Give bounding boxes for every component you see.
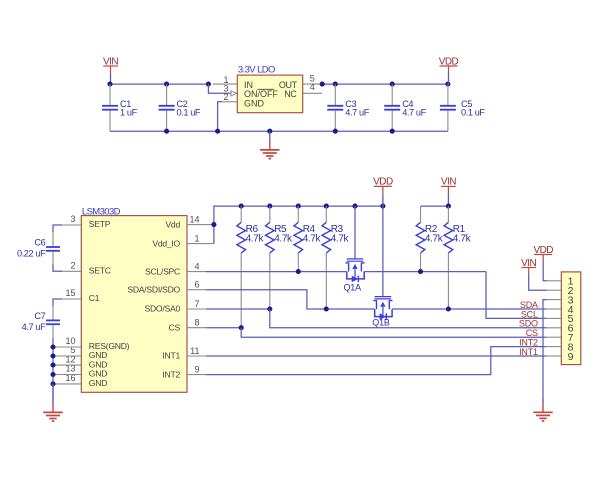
svg-text:4.7 uF: 4.7 uF — [345, 107, 369, 117]
pin 9 stub connector — [546, 355, 561, 357]
node R4 bottom junction — [296, 269, 301, 274]
node R6 top junction — [239, 204, 244, 209]
pin name RES(GND) — [89, 341, 130, 351]
svg-text:8: 8 — [194, 318, 199, 328]
transistor Q1B (level shifter) — [372, 297, 392, 328]
svg-text:4.7k: 4.7k — [453, 234, 472, 245]
node Q1A gate junction — [352, 204, 357, 209]
power flag VIN (bottom section) — [441, 177, 456, 207]
svg-text:4.7k: 4.7k — [246, 234, 265, 245]
wire SCL 3.3V side — [206, 271, 347, 273]
pin number 7 — [194, 299, 199, 309]
pin 7 stub SDO/SA0 — [187, 308, 206, 310]
node R3 bottom junction — [324, 306, 329, 311]
wire LDO ON/OFF tie to IN — [208, 84, 230, 93]
node LDO GND junction — [215, 129, 220, 134]
node R5 top junction — [267, 204, 272, 209]
svg-text:4.7k: 4.7k — [274, 234, 293, 245]
ic U1 LSM303D box — [81, 216, 187, 393]
node ground junction — [267, 129, 272, 134]
node R1 bottom junction — [446, 306, 451, 311]
node LDO IN junction — [206, 82, 211, 87]
resistor R4 4.7k — [294, 206, 322, 272]
pin number 2 connector — [568, 285, 574, 297]
pin name SCL/SPC — [145, 266, 180, 276]
label 3.3V LDO — [238, 65, 275, 76]
svg-text:1 uF: 1 uF — [120, 107, 138, 117]
wire C6 to SETC — [53, 264, 62, 271]
pin 8 stub CS — [187, 327, 206, 329]
wire CS from chip — [206, 327, 241, 329]
pin name CS — [169, 322, 181, 332]
pin number 13 — [65, 364, 75, 374]
svg-text:11: 11 — [190, 346, 199, 356]
ground symbol (top section) — [260, 131, 279, 158]
node C4 bottom junction — [390, 129, 395, 134]
svg-text:4.7k: 4.7k — [331, 234, 350, 245]
pin 5 stub connector — [546, 317, 561, 319]
svg-text:C6: C6 — [34, 237, 45, 247]
power flag VDD (bottom section) — [373, 177, 393, 207]
svg-text:SETC: SETC — [89, 266, 111, 276]
capacitor C7 4.7 uF — [22, 306, 60, 338]
svg-text:GND: GND — [244, 99, 265, 109]
svg-text:1: 1 — [194, 234, 199, 244]
pin 14 stub Vdd — [187, 224, 214, 226]
pin number 7 connector — [568, 332, 574, 344]
svg-text:Q1B: Q1B — [372, 318, 390, 328]
svg-text:Vdd: Vdd — [165, 219, 180, 229]
pin 2 stub LDO GND — [222, 101, 237, 103]
node GND pin 12 junction — [50, 363, 55, 368]
net label SDO — [519, 319, 538, 329]
pin number 8 connector — [568, 341, 574, 353]
svg-text:INT2: INT2 — [162, 369, 180, 379]
svg-text:INT1: INT1 — [162, 351, 180, 361]
svg-text:0.22 uF: 0.22 uF — [17, 249, 46, 259]
pin number 6 connector — [568, 323, 574, 335]
pin name GND — [244, 99, 265, 109]
svg-text:C7: C7 — [34, 311, 45, 321]
svg-text:9: 9 — [194, 365, 199, 375]
resistor R3 4.7k — [322, 206, 350, 309]
resistor R6 4.7k — [237, 206, 265, 328]
svg-text:SDO/SA0: SDO/SA0 — [144, 304, 180, 314]
svg-text:4.7k: 4.7k — [303, 234, 322, 245]
wire VDD output rail — [322, 83, 448, 85]
svg-text:15: 15 — [65, 288, 75, 298]
pin 4 stub SCL/SPC — [187, 271, 206, 273]
svg-text:6: 6 — [194, 280, 199, 290]
pin number 3 (LDO ON/OFF) — [223, 83, 228, 93]
svg-text:4.7 uF: 4.7 uF — [22, 322, 46, 332]
pin name C1 — [89, 293, 100, 303]
pin number 1 connector — [568, 276, 574, 288]
pin name SDO/SA0 — [144, 304, 180, 314]
pin number 5 (LDO OUT) — [310, 73, 315, 83]
wire SETP to C6 — [53, 225, 62, 232]
wire Vdd/Vdd_IO to 3.3V bus — [214, 206, 383, 244]
pin number 1 — [194, 234, 199, 244]
wire VIN to pin 2 — [529, 275, 547, 290]
svg-text:SETP: SETP — [89, 219, 111, 229]
pin 6 stub SDA/SDI/SDO — [187, 289, 206, 291]
svg-text:2: 2 — [223, 92, 228, 102]
svg-text:4: 4 — [310, 82, 315, 92]
pin 1 stub connector — [546, 280, 561, 282]
pin 7 stub connector — [546, 336, 561, 338]
wire ground bus (left) — [52, 338, 54, 403]
net label SDA — [520, 300, 538, 310]
svg-text:4.7k: 4.7k — [425, 234, 444, 245]
node C4 top junction — [390, 82, 395, 87]
pin 3 stub connector — [546, 299, 561, 301]
node C2 bottom junction — [164, 129, 169, 134]
svg-text:0.1 uF: 0.1 uF — [461, 107, 485, 117]
svg-text:3: 3 — [70, 214, 75, 224]
pin 5 stub GND — [53, 355, 81, 357]
node R5 bottom junction — [267, 306, 272, 311]
pin 4 stub connector — [546, 308, 561, 310]
pin 13 stub GND — [53, 374, 81, 376]
pin number 3 — [70, 214, 75, 224]
pin name SETC — [89, 266, 111, 276]
pin name GND — [89, 350, 107, 360]
pin name Vdd — [165, 219, 180, 229]
wire CS to connector — [241, 328, 546, 338]
node GND pin 10 junction — [50, 344, 55, 349]
pin number 8 — [194, 318, 199, 328]
node C3 top junction — [333, 82, 338, 87]
regulator U2 3.3V LDO box — [237, 75, 302, 113]
pin name OUT — [279, 80, 298, 90]
power flag VIN (input rail, top left) — [103, 56, 118, 84]
pin number 2 (LDO GND) — [223, 92, 228, 102]
net label INT2 — [519, 338, 538, 348]
pin number 9 connector — [568, 351, 574, 363]
pin 11 stub INT1 — [187, 355, 206, 357]
pin number 10 — [65, 336, 75, 346]
pin number 15 — [65, 288, 75, 298]
net label INT1 — [519, 347, 538, 357]
connector J1 box — [561, 272, 581, 365]
resistor R5 4.7k — [266, 206, 294, 309]
svg-text:4: 4 — [194, 262, 199, 272]
svg-text:INT1: INT1 — [519, 347, 538, 357]
svg-text:CS: CS — [169, 322, 181, 332]
node GND pin 5 junction — [50, 353, 55, 358]
svg-text:SCL/SPC: SCL/SPC — [145, 266, 180, 276]
pin number 9 — [194, 365, 199, 375]
pin name ON/OFF with overbar — [244, 89, 278, 99]
pin number 12 — [65, 354, 75, 364]
pin name NC — [284, 89, 297, 99]
pin 2 stub SETC — [62, 270, 81, 272]
wire ground rail (top section) — [110, 130, 448, 132]
wire INT2 to connector — [206, 347, 547, 375]
capacitor C4 4.7 uF — [384, 84, 426, 131]
node VIN/C1 junction — [107, 82, 112, 87]
wire SDO to connector — [270, 309, 547, 328]
svg-text:SDA/SDI/SDO: SDA/SDI/SDO — [127, 284, 180, 294]
resistor R1 4.7k — [444, 206, 472, 309]
pin number 6 — [194, 280, 199, 290]
svg-text:NC: NC — [284, 89, 297, 99]
svg-text:9: 9 — [568, 351, 574, 363]
wire SCL to connector — [486, 272, 547, 319]
pin name IN — [244, 80, 253, 90]
wire VDD to pin 1 — [543, 262, 546, 281]
pin number 5 connector — [568, 313, 574, 325]
pin 10 stub GND — [53, 346, 81, 348]
pin name INT1 — [162, 351, 180, 361]
pin 3 stub SETP — [62, 224, 81, 226]
wire gate Q1A to VDD bus — [354, 206, 356, 259]
pin name SDA/SDI/SDO — [127, 284, 180, 294]
pin name Vdd_IO — [152, 238, 180, 248]
wire SDO from chip — [206, 308, 270, 310]
svg-text:GND: GND — [89, 378, 107, 388]
pin number 3 connector — [568, 294, 574, 306]
svg-text:Q1A: Q1A — [344, 282, 362, 292]
pin number 4 — [194, 262, 199, 272]
pin 5 stub LDO OUT — [303, 83, 323, 85]
node OUT junction — [320, 82, 325, 87]
svg-text:4.7 uF: 4.7 uF — [402, 107, 426, 117]
wire VIN rail — [110, 83, 208, 85]
power flag VDD (3.3V rail, top right) — [439, 56, 459, 84]
pin 2 stub connector — [546, 289, 561, 291]
power flag VDD (connector) — [533, 245, 553, 262]
pin number 2 — [70, 260, 75, 270]
wire VIN pullup bus — [421, 205, 449, 207]
pin 1 stub LDO IN — [213, 83, 238, 85]
pin name GND — [89, 369, 107, 379]
net label SCL — [521, 309, 538, 319]
pin 1 stub Vdd_IO — [187, 243, 214, 245]
pin 12 stub GND — [53, 364, 81, 366]
pin 15 stub C1 — [62, 298, 81, 300]
capacitor C5 0.1 uF — [440, 84, 486, 131]
pin 8 stub connector — [546, 346, 561, 348]
capacitor C2 0.1 uF — [159, 84, 201, 131]
pin marker ON/OFF active-low triangle — [231, 91, 237, 96]
pin name SETP — [89, 219, 111, 229]
pin 4 stub LDO NC — [303, 92, 323, 94]
svg-text:3.3V LDO: 3.3V LDO — [238, 65, 275, 76]
node R1/VIN junction — [446, 204, 451, 209]
resistor R2 4.7k — [416, 206, 444, 272]
pin name GND — [89, 359, 107, 369]
transistor Q1A (level shifter) — [344, 259, 365, 292]
ground symbol (bottom right) — [533, 399, 552, 421]
pin number 11 — [190, 346, 199, 356]
wire gate Q1B to VDD bus — [382, 206, 384, 297]
ground symbol (bottom left) — [43, 384, 62, 421]
pin 6 stub connector — [546, 327, 561, 329]
wire SDA 5V side to connector — [392, 308, 546, 310]
pin number 4 (LDO NC) — [310, 82, 315, 92]
wire INT1 to connector — [206, 355, 547, 357]
node GND pin 13 junction — [50, 372, 55, 377]
svg-text:7: 7 — [194, 299, 199, 309]
wire C1 pin to C7 — [53, 299, 62, 306]
node C5/VDD junction — [445, 82, 450, 87]
wire SDA 3.3V side — [206, 290, 375, 309]
power flag VIN (connector) — [521, 258, 536, 275]
svg-text:0.1 uF: 0.1 uF — [177, 107, 201, 117]
pin name GND — [89, 378, 107, 388]
svg-text:LSM303D: LSM303D — [82, 206, 121, 217]
capacitor C6 0.22 uF — [17, 232, 60, 264]
wire GND from pin 3 — [543, 300, 547, 403]
node GND pin 16 junction — [50, 381, 55, 386]
label LSM303D — [82, 206, 121, 217]
node pin14 junction — [211, 222, 216, 227]
pin name INT2 — [162, 369, 180, 379]
node R2 bottom junction — [418, 269, 423, 274]
pin number 4 connector — [568, 304, 574, 316]
capacitor C1 1 uF — [102, 84, 138, 131]
pin 16 stub GND — [53, 383, 81, 385]
capacitor C3 4.7 uF — [327, 84, 369, 131]
pin number 5 — [70, 345, 75, 355]
node R6 bottom junction — [239, 325, 244, 330]
svg-text:14: 14 — [189, 215, 199, 225]
node R4 top junction — [296, 204, 301, 209]
svg-text:2: 2 — [70, 260, 75, 270]
pin number 1 (LDO IN) — [223, 75, 228, 85]
svg-text:Vdd_IO: Vdd_IO — [152, 238, 180, 248]
node C2 top junction — [164, 82, 169, 87]
node VDD bus end junction — [380, 204, 385, 209]
pin number 14 — [189, 215, 199, 225]
node R3 top junction — [324, 204, 329, 209]
svg-text:C1: C1 — [89, 293, 100, 303]
node C3 bottom junction — [333, 129, 338, 134]
pin number 16 — [65, 373, 75, 383]
net label CS — [526, 328, 538, 338]
pin 9 stub INT2 — [187, 374, 206, 376]
wire LDO GND down — [218, 102, 223, 131]
wire SCL 5V side — [364, 271, 486, 273]
